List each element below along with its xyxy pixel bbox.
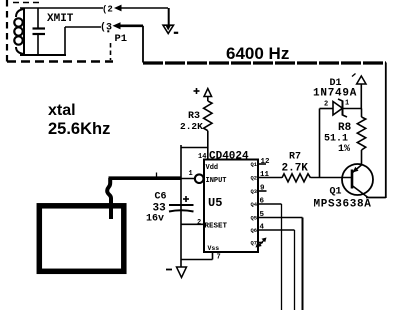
svg-text:5: 5 [260,211,265,219]
svg-text:51.1: 51.1 [324,134,348,145]
svg-text:RESET: RESET [205,223,228,231]
svg-text:Q4: Q4 [251,201,258,208]
svg-text:1N749A: 1N749A [313,88,357,100]
svg-text:1: 1 [345,100,349,108]
svg-text:25.6Khz: 25.6Khz [48,120,110,138]
svg-text:Q3: Q3 [251,188,258,195]
svg-text:9: 9 [260,185,265,193]
svg-text:C6: C6 [155,192,167,203]
svg-text:MPS3638A: MPS3638A [314,199,372,211]
svg-text:Q2: Q2 [251,175,258,182]
svg-text:XMIT: XMIT [47,13,74,25]
svg-text:P1: P1 [115,33,128,45]
svg-text:Vss: Vss [208,245,220,252]
svg-text:(2: (2 [102,5,113,15]
svg-text:2: 2 [324,101,328,109]
svg-text:4: 4 [260,224,265,232]
svg-text:2.7K: 2.7K [282,163,309,175]
svg-text:Vdd: Vdd [206,164,219,172]
svg-text:U5: U5 [208,196,222,210]
svg-text:16v: 16v [146,214,164,225]
svg-text:7: 7 [217,254,221,262]
svg-text:Q5: Q5 [251,215,258,222]
svg-text:2.2K: 2.2K [180,121,203,132]
svg-text:CD4024: CD4024 [209,151,249,163]
svg-text:1%: 1% [338,144,350,155]
svg-text:Q1: Q1 [251,161,258,168]
svg-text:6: 6 [260,198,265,206]
svg-text:11: 11 [260,171,270,179]
svg-text:6400 Hz: 6400 Hz [226,44,289,63]
svg-text:Q7: Q7 [251,240,258,247]
svg-text:Q6: Q6 [251,227,258,234]
svg-text:R7: R7 [289,152,301,163]
svg-text:1: 1 [189,170,193,178]
svg-text:2: 2 [197,219,201,227]
svg-text:R8: R8 [338,122,352,134]
svg-text:Q1: Q1 [330,187,342,198]
svg-text:12: 12 [261,158,271,166]
svg-text:INPUT: INPUT [206,177,227,185]
svg-text:(3: (3 [100,22,112,34]
svg-text:14: 14 [198,153,206,161]
svg-text:xtal: xtal [48,102,76,119]
